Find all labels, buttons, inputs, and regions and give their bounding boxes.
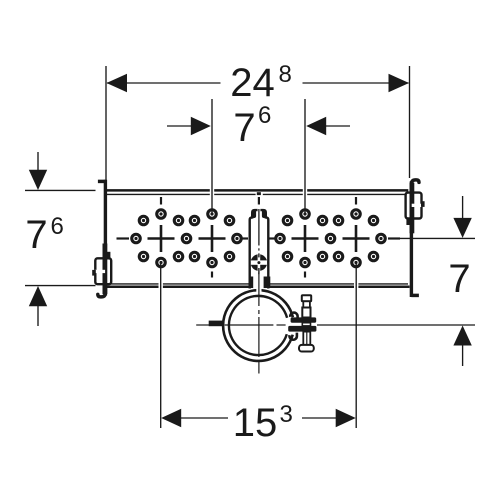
dimension 7 right arrow tail bottom bbox=[462, 345, 464, 366]
left wall bracket assembly bbox=[92, 180, 111, 297]
svg-text:7: 7 bbox=[448, 257, 470, 301]
bracket J-foot left bbox=[98, 284, 106, 297]
dimension 153 arrowhead right bbox=[336, 409, 356, 427]
bracket slot left bbox=[95, 270, 106, 273]
dimension label 15 superscript 3 bbox=[233, 401, 293, 445]
153 extension line left crossing plate (white casing) bbox=[159, 282, 163, 290]
clamp bolt foot nut bbox=[299, 345, 314, 352]
bracket tab left bbox=[92, 270, 96, 276]
dimension label 7 superscript 6 top bbox=[233, 102, 271, 150]
pipe clamp outer ring (open at right) bbox=[223, 290, 293, 361]
strip bolt disc vertical slot bbox=[258, 253, 261, 272]
dimension label 7 right bbox=[448, 257, 470, 301]
pipe clamp lower flange bar bbox=[288, 326, 316, 332]
153 extension line right full bbox=[355, 263, 357, 429]
svg-text:24: 24 bbox=[230, 61, 275, 105]
dimension 248 line right segment bbox=[303, 82, 409, 84]
screw holes centerline row bbox=[132, 234, 386, 243]
dimension 248 extension line right bbox=[409, 66, 411, 178]
bracket notch left bbox=[106, 252, 110, 259]
mounting plate bottom edge thick bbox=[106, 286, 410, 289]
76 extension line left crossing plate (white casing) bbox=[210, 188, 214, 197]
crosshair at x=212 bbox=[199, 225, 226, 252]
screw holes top row bbox=[157, 210, 361, 219]
dimension 76 left extension line top bbox=[25, 189, 96, 191]
dimension 7 right extension line top bbox=[400, 237, 475, 239]
dimension 76 top arrow tail left bbox=[167, 125, 194, 127]
dimension 248 line left segment bbox=[107, 82, 221, 84]
dimension 76 left extension line bottom bbox=[25, 285, 96, 287]
strip top hook blob between edge lines bbox=[257, 192, 261, 195]
crosshair at x=305 bbox=[292, 225, 319, 252]
dimension 7 right extension line bottom bbox=[317, 324, 475, 326]
screw holes bottom row bbox=[157, 258, 361, 267]
svg-text:7: 7 bbox=[25, 213, 47, 257]
strip bolt centerline dash above bbox=[258, 253, 260, 257]
clamp bolt neck bbox=[303, 301, 310, 307]
pipe clamp upper flange bar bbox=[291, 317, 317, 322]
clamp bolt upper body bbox=[302, 308, 310, 318]
clamp vertical centerline segments bbox=[258, 273, 260, 374]
dimension 76 left arrow tail top bbox=[37, 152, 39, 172]
clamp vertical centerline white casing through plate bottom edge bbox=[256, 282, 261, 292]
dimension 153 arrowhead left bbox=[161, 409, 181, 427]
vertical centerline dashes above holes bbox=[161, 197, 356, 205]
right wall bracket assembly (mirrored) bbox=[406, 180, 425, 297]
pipe clamp lower hook curl bbox=[290, 333, 297, 340]
strip bottom thickened bar right bbox=[264, 277, 271, 289]
dimension 248 arrowhead right bbox=[389, 74, 410, 92]
dimension 153 line left segment bbox=[181, 417, 228, 419]
bracket tab right bbox=[421, 201, 425, 207]
mounting plate top edge thin bbox=[107, 193, 408, 195]
strip bolt disc center dot bbox=[257, 261, 260, 264]
153 extension line left full bbox=[160, 263, 162, 429]
clamp bolt lower shaft bbox=[303, 332, 310, 345]
crosshair at x=161 bbox=[148, 225, 175, 252]
pipe clamp upper hook curl bbox=[290, 313, 297, 319]
strip centerline dot bbox=[258, 248, 260, 250]
plate left edge bar bbox=[104, 180, 107, 296]
bracket bar right bbox=[410, 183, 415, 234]
svg-text:6: 6 bbox=[258, 102, 271, 129]
strip bottom thickened bar left bbox=[249, 277, 253, 289]
clamp bolt head bbox=[302, 295, 311, 301]
strip centerline upper segment bbox=[258, 209, 260, 246]
dimension 76 top arrow tail right bbox=[324, 125, 351, 127]
76 extension line left full bbox=[211, 99, 213, 214]
vertical centerline dashes below holes bbox=[212, 272, 305, 278]
dimension 76 left arrowhead bottom bbox=[29, 286, 47, 306]
clamp horizontal centerline dashes bbox=[196, 324, 285, 326]
153 extension line right crossing plate (white casing) bbox=[354, 282, 358, 290]
strip bolt disc horizontal slot bbox=[251, 260, 267, 264]
top hook stub bbox=[98, 180, 106, 184]
bracket body left bbox=[95, 258, 111, 284]
dimension 76 top arrowhead right bbox=[306, 117, 326, 135]
bottom hook stub (mirrored) bbox=[411, 294, 419, 298]
dimension 248 extension line left bbox=[105, 66, 107, 189]
mounting plate bottom edge thin bbox=[107, 283, 408, 285]
mounting plate top edge thick bbox=[106, 189, 408, 192]
clamp bolt shaft center line bbox=[306, 332, 308, 345]
screw holes upper diagonal row bbox=[139, 216, 378, 225]
dimension 7 right arrow tail top bbox=[462, 196, 464, 219]
dimension 7 right arrowhead bottom bbox=[453, 326, 471, 346]
bracket bar left bbox=[103, 244, 108, 295]
bracket J-hook right bbox=[411, 180, 419, 193]
bracket notch right bbox=[406, 218, 410, 225]
crosshair at x=356 bbox=[343, 225, 370, 252]
76 extension line right crossing plate (white casing) bbox=[303, 188, 307, 197]
pipe clamp weld tab left bbox=[209, 321, 225, 327]
bracket slot right bbox=[412, 204, 423, 207]
bracket body right bbox=[406, 193, 422, 219]
dimension label 24 superscript 8 bbox=[230, 61, 292, 105]
clamp bolt mid band bbox=[302, 323, 310, 326]
dimension 248 arrowhead left bbox=[107, 74, 128, 92]
svg-text:7: 7 bbox=[233, 106, 255, 150]
horizontal centerline dashes bbox=[117, 237, 401, 239]
svg-text:3: 3 bbox=[280, 401, 293, 428]
svg-text:6: 6 bbox=[51, 213, 64, 240]
svg-text:15: 15 bbox=[233, 401, 278, 445]
dimension label 7 superscript 6 left bbox=[25, 213, 63, 257]
pipe clamp inner ring (open at right) bbox=[229, 296, 287, 355]
strip horn left bbox=[252, 209, 256, 218]
strip horn right bbox=[262, 209, 266, 218]
dimension 7 right arrowhead top bbox=[453, 218, 471, 238]
dimension 76 top arrowhead left bbox=[191, 117, 211, 135]
strip bolt centerline dash below bbox=[258, 268, 260, 274]
plate right edge bar bbox=[410, 181, 413, 297]
screw holes lower diagonal row bbox=[139, 252, 378, 261]
strip top split gap bbox=[258, 208, 261, 220]
dimension 153 line right segment bbox=[302, 417, 336, 419]
dimension 76 left arrow tail bottom bbox=[37, 305, 39, 326]
dimension 76 left arrowhead top bbox=[29, 170, 47, 190]
svg-text:8: 8 bbox=[279, 61, 292, 88]
strip bolt disc bbox=[251, 254, 268, 271]
76 extension line right full bbox=[304, 99, 306, 214]
center channel strip outline bbox=[250, 210, 269, 288]
